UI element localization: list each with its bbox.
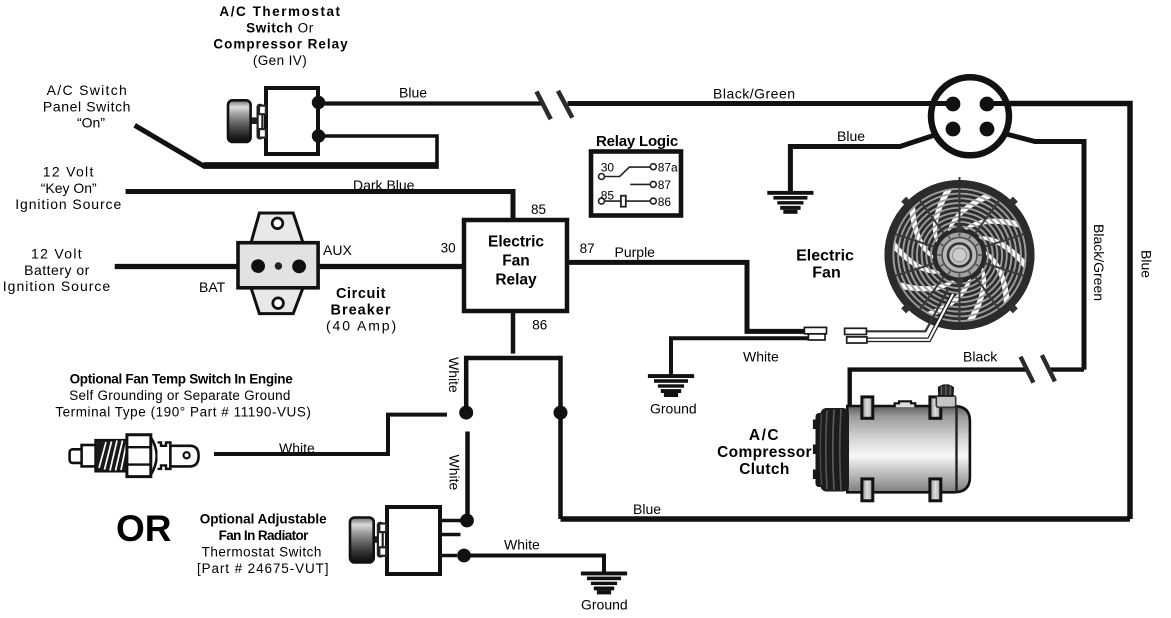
- knob (top switch): [228, 100, 251, 142]
- wire purple from relay 87: [566, 262, 806, 331]
- 4-pin connector circle: [931, 77, 1009, 155]
- wire battery to relay 30: [115, 264, 465, 269]
- ground 3 symbol: [581, 572, 627, 595]
- wire relay 86 down: [511, 311, 516, 354]
- bracket (lower switch): [378, 523, 386, 557]
- compressor top fitting: [895, 401, 916, 407]
- svg-text:Compressor: Compressor: [717, 444, 812, 461]
- wire blue top from thermostat to connector: [318, 101, 543, 105]
- svg-text:Blue: Blue: [837, 128, 865, 144]
- svg-text:Compressor Relay: Compressor Relay: [213, 37, 348, 52]
- compressor end cap line: [955, 407, 957, 493]
- wire white to ground 3: [464, 556, 604, 573]
- svg-text:Blue: Blue: [399, 85, 427, 101]
- svg-text:86: 86: [532, 317, 547, 332]
- terminal dot upper: [312, 96, 325, 109]
- wire black/green top after break: [568, 101, 954, 106]
- svg-text:Black/Green: Black/Green: [713, 86, 796, 102]
- svg-text:Fan: Fan: [812, 265, 840, 282]
- wire lower thermostat top pin: [440, 519, 461, 523]
- wire white to ground near fan: [671, 338, 808, 374]
- circuit breaker bottom hole: [273, 298, 284, 309]
- relay logic pin 87a circle: [650, 164, 656, 170]
- breaker AUX terminal: [292, 260, 306, 274]
- svg-text:Terminal Type (190° Part # 111: Terminal Type (190° Part # 11190-VUS): [55, 404, 311, 419]
- svg-text:Electric: Electric: [488, 234, 544, 251]
- relay logic pin 86 circle: [650, 198, 656, 204]
- wire thermostat lower terminal loop: [318, 136, 437, 163]
- wire 86 T-bar: [466, 356, 560, 361]
- svg-text:AUX: AUX: [323, 242, 352, 258]
- svg-text:(40 Amp): (40 Amp): [326, 318, 398, 334]
- bracket (top switch): [258, 105, 266, 139]
- relay logic coil wire: [605, 200, 651, 202]
- wire white left branch upper: [464, 356, 469, 406]
- wire black right segment: [1051, 367, 1084, 371]
- compressor valve collar: [936, 396, 955, 408]
- svg-text:Fan: Fan: [502, 253, 530, 270]
- svg-text:Circuit: Circuit: [336, 286, 386, 302]
- circuit breaker top hole: [272, 218, 283, 229]
- svg-text:Blue: Blue: [633, 501, 661, 517]
- svg-text:White: White: [446, 357, 462, 393]
- knob shaft (top switch): [251, 117, 259, 124]
- svg-text:87: 87: [580, 241, 595, 256]
- fan temp switch sensor: [70, 435, 199, 477]
- svg-text:A/C Thermostat: A/C Thermostat: [219, 4, 341, 19]
- svg-text:Ignition Source: Ignition Source: [3, 278, 111, 294]
- svg-text:Electric: Electric: [796, 248, 854, 265]
- lower thermostat switch box: [387, 507, 440, 574]
- svg-text:30: 30: [441, 240, 456, 255]
- A/C compressor clutch body: [847, 406, 970, 492]
- node thermostat top pin dot: [460, 514, 474, 528]
- spade connector half B: [845, 328, 867, 343]
- svg-text:White: White: [504, 537, 540, 553]
- wire diagonal from panel switch: [135, 125, 205, 166]
- relay logic 87 stub: [630, 183, 650, 185]
- circuit breaker top tab: [251, 213, 303, 243]
- connector pin BR: [980, 122, 995, 137]
- relay logic pin 85 circle: [599, 198, 605, 204]
- svg-text:Relay Logic: Relay Logic: [596, 133, 678, 150]
- svg-text:“On”: “On”: [77, 115, 105, 131]
- wire blue bottom long: [561, 516, 1131, 522]
- circuit breaker bottom tab: [251, 288, 303, 314]
- relay logic box: [591, 152, 681, 216]
- break symbol on black wire: [1021, 355, 1055, 383]
- node junction dot right: [554, 406, 568, 420]
- svg-text:Purple: Purple: [615, 244, 656, 260]
- svg-text:86: 86: [658, 195, 672, 209]
- svg-text:“Key On”: “Key On”: [41, 180, 97, 196]
- electric fan relay box U1: [464, 220, 567, 311]
- wire sensor white: [214, 415, 447, 454]
- ground 2 symbol: [648, 374, 694, 397]
- svg-text:85: 85: [601, 189, 615, 203]
- wire white right branch: [558, 356, 563, 519]
- breaker BAT terminal: [251, 259, 265, 273]
- svg-text:Optional Fan Temp Switch In En: Optional Fan Temp Switch In Engine: [70, 372, 294, 387]
- connector pin BL: [946, 122, 961, 137]
- svg-text:Thermostat Switch: Thermostat Switch: [202, 544, 322, 559]
- break symbol on blue top wire: [537, 91, 573, 119]
- wire dark blue to relay 85: [126, 192, 513, 222]
- svg-text:Ground: Ground: [581, 597, 628, 613]
- wire lower thermostat bottom pin: [440, 554, 457, 558]
- compressor mounting tab top-left: [862, 397, 873, 418]
- svg-text:Breaker: Breaker: [330, 302, 391, 318]
- svg-text:Switch Or: Switch Or: [246, 20, 314, 35]
- svg-text:Black/Green: Black/Green: [1091, 224, 1107, 301]
- svg-text:Panel Switch: Panel Switch: [43, 98, 131, 114]
- svg-text:Dark Blue: Dark Blue: [353, 177, 415, 193]
- svg-text:BAT: BAT: [199, 279, 226, 295]
- svg-text:White: White: [279, 440, 315, 456]
- svg-text:85: 85: [531, 202, 546, 217]
- svg-text:87: 87: [658, 178, 672, 192]
- relay logic pin 87 circle: [650, 181, 656, 187]
- connector wire stubs: [930, 101, 1010, 106]
- svg-text:(Gen IV): (Gen IV): [253, 53, 307, 68]
- compressor mounting tab bottom-right: [930, 479, 941, 501]
- compressor valve cap: [939, 385, 954, 396]
- wire white left branch lower: [465, 432, 470, 521]
- svg-text:Blue: Blue: [1139, 250, 1155, 278]
- spade connector half A: [804, 327, 826, 340]
- svg-text:A/C Switch: A/C Switch: [47, 82, 128, 98]
- compressor mounting tab top-right: [930, 397, 941, 418]
- wire black left segment: [850, 370, 1028, 408]
- wire blue right vertical: [994, 104, 1130, 520]
- wire blue from connector bottom-left to ground 1: [790, 129, 953, 192]
- A/C thermostat switch box (top): [266, 88, 318, 154]
- svg-text:OR: OR: [116, 508, 172, 549]
- relay logic pin 30 circle: [599, 174, 605, 180]
- electric fan assembly: [874, 171, 1044, 340]
- knob shaft (lower switch): [374, 536, 382, 543]
- svg-text:Ground: Ground: [650, 401, 697, 417]
- svg-text:12 Volt: 12 Volt: [31, 246, 83, 262]
- compressor mounting tab bottom-left: [862, 479, 873, 501]
- svg-text:30: 30: [601, 161, 615, 175]
- svg-text:87a: 87a: [658, 161, 678, 175]
- fan wire black lead: [867, 290, 948, 331]
- knob (lower switch): [350, 518, 374, 563]
- wire thick return to panel switch: [204, 162, 439, 169]
- svg-text:[Part # 24675-VUT]: [Part # 24675-VUT]: [197, 561, 330, 576]
- node thermostat bottom pin dot: [457, 549, 471, 563]
- svg-text:Black: Black: [963, 349, 998, 365]
- svg-text:Self Grounding or Separate Gro: Self Grounding or Separate Ground: [69, 388, 290, 403]
- compressor pulley: [813, 408, 849, 492]
- node switch dot upper-left: [459, 406, 473, 420]
- svg-text:Battery or: Battery or: [24, 262, 90, 278]
- svg-text:Fan In Radiator: Fan In Radiator: [219, 528, 310, 543]
- svg-text:Relay: Relay: [495, 272, 537, 289]
- connector pin TR: [980, 97, 995, 112]
- connector pin TL: [946, 97, 961, 112]
- relay logic coil: [621, 196, 626, 207]
- breaker center dot: [275, 262, 282, 269]
- ground 1 symbol: [767, 191, 813, 214]
- terminal dot lower: [312, 129, 325, 142]
- svg-text:Ignition Source: Ignition Source: [15, 196, 122, 212]
- svg-text:Optional Adjustable: Optional Adjustable: [200, 512, 327, 527]
- fan wire white lead: [867, 294, 953, 340]
- svg-text:White: White: [743, 349, 779, 365]
- svg-text:12 Volt: 12 Volt: [43, 164, 95, 180]
- wire lower thermostat middle pin: [440, 533, 461, 537]
- svg-text:Clutch: Clutch: [739, 461, 790, 478]
- svg-text:A/C: A/C: [749, 427, 780, 444]
- svg-text:White: White: [447, 455, 463, 491]
- circuit breaker body: [238, 243, 318, 288]
- relay logic 30-87a contact: [605, 167, 651, 176]
- wire black/green from connector bottom-right: [987, 129, 1084, 370]
